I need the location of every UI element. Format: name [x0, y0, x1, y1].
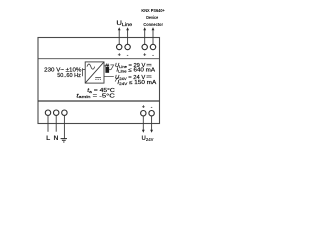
terminal 24V -: [149, 111, 154, 116]
label KNX PS640+ Device Connector: [141, 8, 165, 28]
svg-text:I24V ≤ 150 mA: I24V ≤ 150 mA: [117, 80, 156, 86]
wire connector to line values fork: [109, 65, 114, 70]
value label ILine <= 640mA: [116, 68, 155, 74]
label ULine (top): [116, 20, 132, 27]
terminal bus -: [125, 44, 130, 49]
device outline box U1: [38, 38, 160, 124]
wire N down: [55, 115, 57, 131]
terminal N: [54, 110, 59, 115]
DC symbol in converter: [95, 78, 101, 80]
svg-text:Device: Device: [146, 15, 158, 21]
DC marks after 29V: [147, 64, 152, 66]
terminal connector -: [150, 44, 155, 49]
AC/DC converter symbol: [85, 62, 104, 83]
separator bottom terminal band: [38, 100, 160, 102]
separator top terminal band: [38, 58, 160, 60]
wire device connector - up: [152, 30, 154, 44]
polarity marks under top terminals: [118, 52, 154, 58]
KNX bus connector block (black): [105, 65, 109, 73]
svg-text:Connector: Connector: [143, 22, 163, 28]
value label I24V <= 150mA: [117, 80, 156, 86]
wire bus + up: [118, 30, 120, 44]
value label ULine = 29V: [115, 63, 146, 69]
wire device connector + up: [144, 30, 146, 44]
wire mains join bracket: [83, 68, 86, 76]
arrowheads on top wires: [118, 27, 155, 30]
svg-text:L: L: [46, 135, 50, 142]
polarity marks above 24V terminals: [142, 105, 153, 111]
svg-text:tamin = -5°C: tamin = -5°C: [76, 93, 115, 99]
svg-text:-: -: [127, 52, 129, 58]
wire PE down: [63, 115, 65, 138]
DC marks after 24V: [147, 76, 152, 78]
terminal L: [45, 110, 50, 115]
earth ground symbol: [61, 139, 67, 142]
svg-text:-: -: [152, 52, 154, 58]
wire 24V + down: [142, 116, 144, 130]
wire converter to KNX connector: [104, 65, 105, 67]
svg-text:+: +: [143, 52, 146, 58]
value label U24V = 24V: [115, 75, 146, 81]
svg-text:+: +: [142, 105, 145, 111]
wire 24V - down: [151, 116, 153, 130]
svg-text:N: N: [54, 135, 59, 142]
value label ta = 45C: [76, 88, 115, 99]
terminal PE: [62, 110, 67, 115]
connector wire stubs: [106, 64, 108, 65]
terminal bus +: [117, 44, 122, 49]
sine symbol in converter: [87, 64, 95, 69]
svg-text:U24V: U24V: [142, 136, 154, 142]
terminal connector +: [142, 44, 147, 49]
svg-text:-: -: [151, 105, 153, 111]
svg-text:ULine: ULine: [116, 20, 132, 27]
arrowheads on 24V wires: [142, 130, 153, 133]
svg-text:KNX PS640+: KNX PS640+: [141, 8, 165, 14]
connector wire holes: [106, 66, 109, 67]
terminal 24V +: [141, 111, 146, 116]
wire bus - up: [127, 30, 129, 44]
value label 230V mains: [44, 68, 82, 79]
svg-text:+: +: [118, 52, 121, 58]
wire L down: [47, 115, 49, 131]
svg-text:50..60 Hz: 50..60 Hz: [57, 73, 81, 79]
wire converter to 24V values fork: [104, 77, 118, 82]
